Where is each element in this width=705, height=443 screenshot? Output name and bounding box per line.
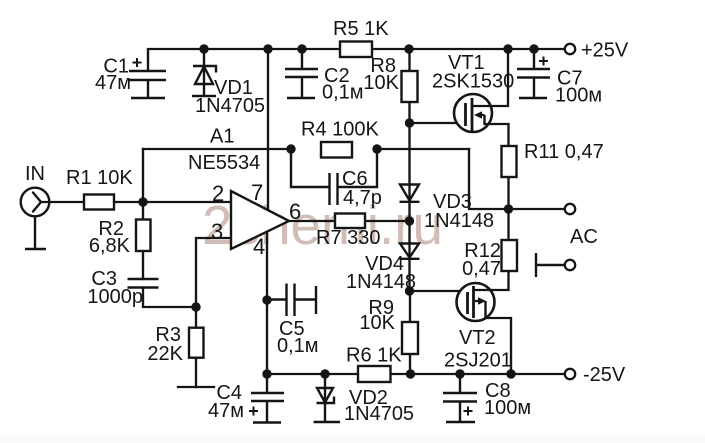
capacitor C7 <box>517 49 550 98</box>
wire node B to R3 <box>195 307 197 328</box>
wire R4 right to corner <box>377 148 469 150</box>
svg-text:10K: 10K <box>363 72 399 94</box>
node diode mid <box>405 216 414 225</box>
svg-text:R5 1K: R5 1K <box>333 18 389 40</box>
node C4 rail <box>262 369 271 378</box>
svg-text:R11 0,47: R11 0,47 <box>524 141 604 163</box>
wire R12 to VT2 <box>474 271 509 290</box>
svg-text:4,7p: 4,7p <box>343 187 382 209</box>
wire VT2 drain to bottom rail <box>486 318 512 374</box>
input jack IN <box>21 188 50 249</box>
resistor R12 <box>462 240 517 280</box>
svg-text:A1: A1 <box>210 126 234 148</box>
wire feedback vertical at node A <box>142 149 144 202</box>
resistor R2 <box>89 218 151 257</box>
resistor R8 <box>363 55 417 102</box>
svg-text:1N4148: 1N4148 <box>424 210 494 232</box>
wire output node to R12 <box>507 209 509 240</box>
svg-text:IN: IN <box>25 163 45 185</box>
terminal +25V <box>565 40 629 62</box>
svg-text:VT2: VT2 <box>459 327 496 349</box>
svg-text:2SJ201: 2SJ201 <box>444 350 512 372</box>
resistor R4 <box>301 119 379 158</box>
capacitor C6 <box>291 149 377 205</box>
wire R9 to bottom rail <box>409 354 411 374</box>
svg-text:2SK1530: 2SK1530 <box>432 71 514 93</box>
svg-text:1N4705: 1N4705 <box>344 403 414 425</box>
svg-text:0,1м: 0,1м <box>277 335 319 357</box>
resistor R1 <box>66 167 133 210</box>
svg-text:6: 6 <box>289 199 301 224</box>
wire VD3 to node C <box>408 202 410 244</box>
resistor R3 <box>147 324 203 365</box>
node VD1 top <box>199 44 208 53</box>
svg-text:R4 100K: R4 100K <box>301 119 379 141</box>
wire R7 to diode bus <box>365 220 409 222</box>
node R4 left <box>286 144 295 153</box>
wire C3 bottom to node B <box>143 288 196 308</box>
node R9 rail <box>406 369 415 378</box>
capacitor C2 <box>285 49 318 98</box>
terminal -25V <box>565 364 626 386</box>
node VD2 rail <box>320 369 329 378</box>
svg-text:100м: 100м <box>484 397 531 419</box>
svg-text:R6 1K: R6 1K <box>346 345 402 367</box>
node VT1 gate <box>405 118 414 127</box>
wire feedback top left <box>143 148 291 150</box>
wire R1 to pin2 <box>114 201 231 203</box>
node C7 top <box>529 44 538 53</box>
wire VD4 to node D <box>408 243 410 291</box>
node R8 top <box>404 44 413 53</box>
capacitor C1 <box>129 49 166 98</box>
wire VT2 gate <box>410 290 460 292</box>
wire VT1 gate <box>410 122 457 124</box>
node VT2 gate <box>405 286 414 295</box>
resistor R9 <box>359 297 418 354</box>
wire top rail +25V <box>148 48 565 50</box>
svg-text:R1 10K: R1 10K <box>66 167 133 189</box>
svg-text:2: 2 <box>212 181 224 206</box>
svg-text:+25V: +25V <box>581 40 629 62</box>
capacitor C5 <box>267 284 316 317</box>
svg-text:4: 4 <box>253 234 265 259</box>
svg-text:3: 3 <box>211 219 223 244</box>
svg-text:AC: AC <box>570 226 598 248</box>
node R4 right <box>372 144 381 153</box>
diode VD3 <box>400 185 420 202</box>
op-amp U1 NE5534 <box>188 126 301 260</box>
node VT2 drain rail <box>506 369 515 378</box>
ground bar R3 <box>178 386 214 388</box>
wire node D to R9 <box>409 291 411 322</box>
svg-text:10K: 10K <box>359 312 395 334</box>
terminal AC out <box>565 204 598 248</box>
node input divider <box>138 197 147 206</box>
node pin7 rail <box>263 44 272 53</box>
wire pin4 supply drop <box>266 232 268 374</box>
resistor R5 <box>333 18 389 57</box>
resistor R6 <box>346 345 402 383</box>
wire R8 to VD3 <box>408 102 410 202</box>
node VT1 drain rail <box>503 44 512 53</box>
wire bottom rail -25V <box>267 373 565 375</box>
svg-text:1N4705: 1N4705 <box>195 95 265 117</box>
svg-text:NE5534: NE5534 <box>188 152 260 174</box>
zener diode VD2 <box>314 374 341 422</box>
svg-text:100м: 100м <box>555 85 602 107</box>
zener diode VD1 <box>192 49 216 96</box>
wire pin3 <box>196 238 231 307</box>
wire R11 to output node <box>507 177 509 209</box>
transistor VT2 2SJ201 <box>457 283 495 321</box>
capacitor C3 <box>128 279 159 288</box>
svg-text:-25V: -25V <box>583 364 626 386</box>
resistor R7 <box>316 214 381 250</box>
resistor R11 <box>502 141 604 177</box>
wire VT1 drain <box>472 49 508 106</box>
node C8 rail <box>455 369 464 378</box>
capacitor C8 <box>443 374 477 422</box>
svg-text:0,1м: 0,1м <box>322 82 364 104</box>
capacitor C4 <box>249 374 284 423</box>
wire R2 top lead <box>142 202 144 220</box>
wire R3 to ground <box>195 358 197 387</box>
svg-text:6,8K: 6,8K <box>89 235 131 257</box>
wire R8 bus top <box>408 49 410 71</box>
wire pin7 supply drop <box>267 49 269 210</box>
svg-text:1000p: 1000p <box>87 286 143 308</box>
transistor VT1 2SK1530 <box>454 94 492 132</box>
svg-text:22K: 22K <box>147 343 183 365</box>
node R3 top <box>191 302 200 311</box>
wire input to R1 <box>41 201 84 203</box>
wire feedback down to output <box>469 149 565 209</box>
svg-text:7: 7 <box>251 180 263 205</box>
node C2 top <box>297 44 306 53</box>
svg-text:47м: 47м <box>208 400 244 422</box>
svg-text:R7 330: R7 330 <box>316 227 381 249</box>
diode VD4 <box>400 244 420 259</box>
node output <box>504 204 513 213</box>
terminal AC common <box>536 253 575 277</box>
svg-text:0,47: 0,47 <box>462 258 501 280</box>
svg-text:47м: 47м <box>95 72 131 94</box>
wire VT1 source to R11 <box>485 124 509 146</box>
node C5 tap <box>262 295 271 304</box>
wire R2 to C3 <box>142 251 144 279</box>
wire pin6 output to R7 <box>289 220 335 222</box>
